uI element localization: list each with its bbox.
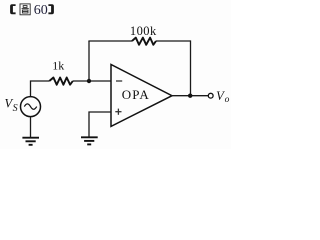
terminal: Vo open circle bbox=[208, 93, 213, 98]
figure label left bracket 【 bbox=[10, 4, 16, 14]
svg-text:100k: 100k bbox=[130, 24, 157, 38]
node: inverting input junction dot bbox=[87, 79, 91, 83]
wire: feedback left vertical bbox=[88, 41, 90, 81]
op-amp plus sign bbox=[115, 109, 121, 115]
resistor R1 1k zigzag bbox=[49, 78, 73, 85]
figure label glyph 圖 bbox=[20, 4, 30, 15]
op-amp U1 triangle bbox=[111, 65, 172, 127]
source VS circle with sine bbox=[21, 97, 41, 117]
wire: feedback top horizontal left segment bbox=[88, 40, 132, 42]
wire: 1k to op-amp inverting input bbox=[73, 80, 112, 82]
wire: feedback right vertical down to output bbox=[190, 40, 192, 95]
resistor R2 100k zigzag bbox=[132, 38, 156, 45]
figure label right bracket 】 bbox=[48, 4, 54, 14]
wire: Vs top corner to 1k resistor bbox=[31, 81, 50, 97]
svg-text:1k: 1k bbox=[52, 59, 64, 73]
wire: Vs bottom lead bbox=[30, 117, 32, 137]
svg-text:S: S bbox=[13, 103, 18, 114]
ground under Vs bbox=[22, 138, 39, 145]
svg-text:o: o bbox=[225, 95, 230, 105]
ground under non-inverting input bbox=[81, 137, 98, 144]
op-amp minus sign bbox=[116, 80, 122, 82]
wire: non-inverting input to ground bbox=[89, 112, 112, 137]
wire: op-amp output to Vo terminal bbox=[171, 95, 208, 97]
svg-text:OPA: OPA bbox=[122, 87, 150, 102]
node: output junction dot bbox=[188, 94, 192, 98]
wire: feedback top horizontal right segment bbox=[156, 40, 191, 42]
svg-text:60: 60 bbox=[34, 3, 48, 18]
